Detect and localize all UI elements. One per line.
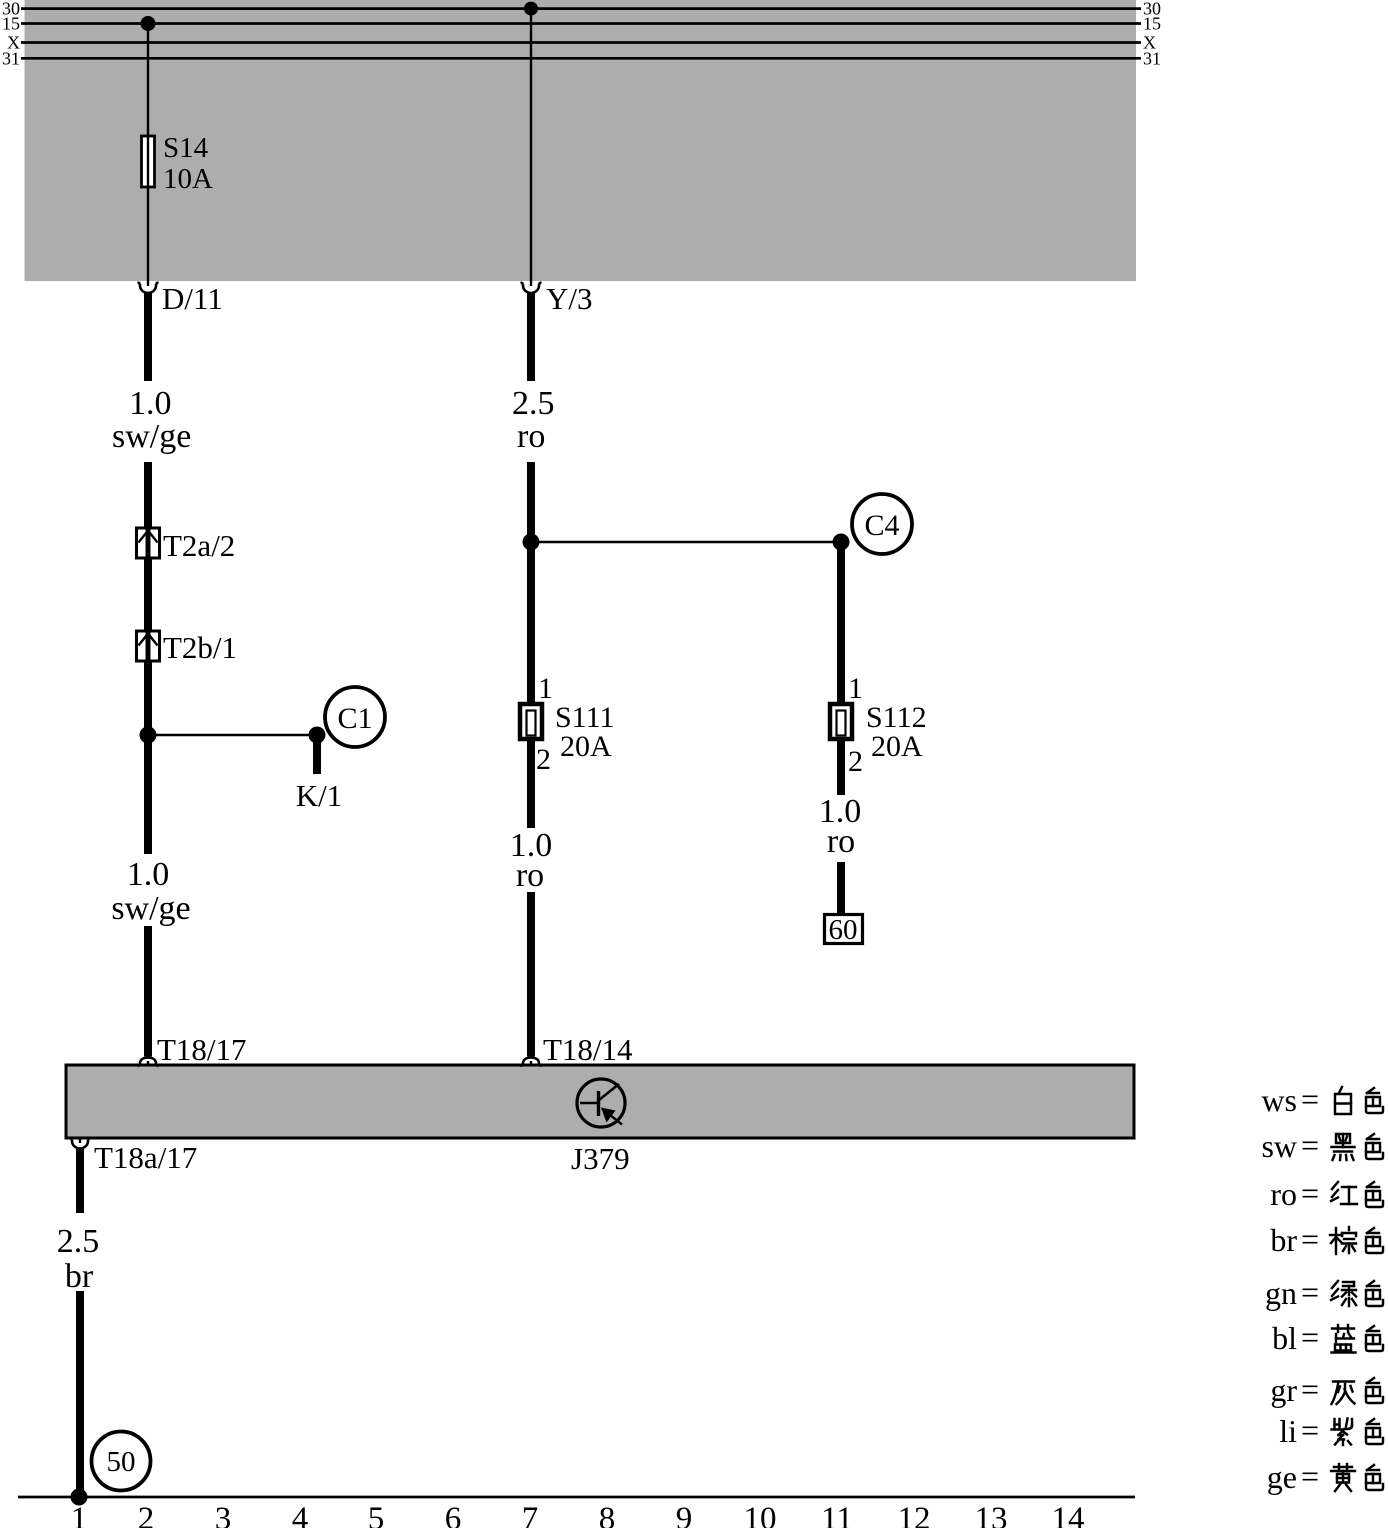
svg-text:ro: ro: [516, 857, 544, 894]
svg-text:10A: 10A: [163, 163, 213, 195]
svg-text:2: 2: [138, 1501, 155, 1528]
svg-text:2.5: 2.5: [57, 1223, 100, 1260]
svg-text:7: 7: [522, 1501, 539, 1528]
svg-text:ro: ro: [517, 418, 545, 455]
svg-text:ge: ge: [1267, 1459, 1297, 1495]
svg-text:=: =: [1301, 1127, 1319, 1163]
svg-text:=: =: [1301, 1221, 1319, 1257]
svg-text:ro: ro: [1270, 1176, 1297, 1212]
svg-text:1: 1: [71, 1501, 88, 1528]
svg-text:11: 11: [821, 1501, 853, 1528]
svg-text:Y/3: Y/3: [546, 281, 593, 316]
svg-text:T18a/17: T18a/17: [94, 1140, 197, 1175]
svg-text:C4: C4: [864, 509, 899, 542]
svg-text:15: 15: [1143, 14, 1161, 34]
svg-text:li: li: [1279, 1413, 1297, 1449]
svg-text:1.0: 1.0: [127, 856, 170, 893]
svg-text:1: 1: [848, 672, 863, 705]
svg-text:20A: 20A: [871, 730, 923, 763]
svg-text:=: =: [1301, 1458, 1319, 1494]
svg-text:2.5: 2.5: [512, 385, 555, 422]
svg-text:sw/ge: sw/ge: [111, 890, 190, 927]
svg-text:C1: C1: [337, 702, 372, 735]
svg-text:14: 14: [1052, 1501, 1085, 1528]
svg-text:sw/ge: sw/ge: [112, 418, 191, 455]
svg-text:T18/14: T18/14: [543, 1032, 633, 1067]
svg-text:=: =: [1301, 1081, 1319, 1117]
svg-text:1.0: 1.0: [129, 385, 172, 422]
svg-text:9: 9: [676, 1501, 693, 1528]
svg-text:31: 31: [2, 48, 20, 68]
svg-text:31: 31: [1143, 48, 1161, 68]
svg-text:K/1: K/1: [296, 778, 343, 813]
svg-text:D/11: D/11: [162, 281, 223, 316]
svg-text:60: 60: [829, 914, 858, 946]
svg-text:15: 15: [2, 14, 20, 34]
svg-text:10: 10: [744, 1501, 777, 1528]
svg-text:=: =: [1301, 1319, 1319, 1355]
svg-text:S14: S14: [163, 132, 209, 164]
svg-text:1: 1: [538, 672, 553, 705]
svg-text:20A: 20A: [560, 730, 612, 763]
svg-text:2: 2: [848, 745, 863, 778]
svg-text:T18/17: T18/17: [157, 1032, 247, 1067]
svg-text:6: 6: [445, 1501, 462, 1528]
svg-text:3: 3: [215, 1501, 232, 1528]
svg-text:8: 8: [599, 1501, 616, 1528]
svg-text:bl: bl: [1272, 1320, 1297, 1356]
svg-text:J379: J379: [571, 1141, 630, 1176]
svg-text:gn: gn: [1265, 1275, 1297, 1311]
svg-text:ro: ro: [827, 823, 855, 860]
svg-text:12: 12: [898, 1501, 931, 1528]
svg-text:2: 2: [536, 743, 551, 776]
svg-text:br: br: [1270, 1222, 1297, 1258]
svg-text:50: 50: [107, 1446, 136, 1478]
svg-text:br: br: [65, 1258, 94, 1295]
svg-text:T2a/2: T2a/2: [163, 528, 235, 563]
svg-text:sw: sw: [1261, 1128, 1297, 1164]
svg-text:=: =: [1301, 1371, 1319, 1407]
svg-text:ws: ws: [1261, 1082, 1297, 1118]
svg-text:gr: gr: [1270, 1372, 1297, 1408]
svg-text:4: 4: [292, 1501, 309, 1528]
svg-text:=: =: [1301, 1274, 1319, 1310]
svg-text:=: =: [1301, 1175, 1319, 1211]
svg-text:5: 5: [368, 1501, 385, 1528]
svg-text:13: 13: [975, 1501, 1008, 1528]
svg-text:=: =: [1301, 1412, 1319, 1448]
svg-text:T2b/1: T2b/1: [163, 630, 237, 665]
